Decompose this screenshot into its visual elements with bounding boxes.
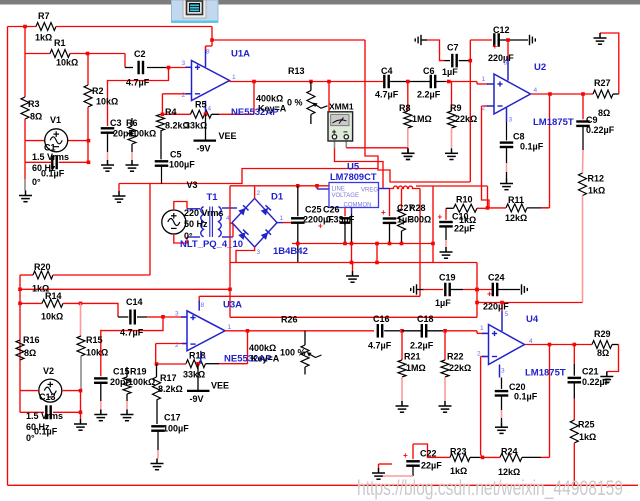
svg-text:300Ω: 300Ω — [409, 215, 431, 225]
svg-text:R26: R26 — [281, 315, 298, 325]
svg-text:C20: C20 — [509, 382, 526, 392]
svg-text:U3A: U3A — [223, 300, 242, 311]
svg-text:R9: R9 — [450, 103, 462, 113]
svg-text:12kΩ: 12kΩ — [498, 467, 520, 477]
svg-text:10kΩ: 10kΩ — [56, 58, 78, 68]
svg-text:4: 4 — [208, 106, 212, 113]
svg-text:100 %: 100 % — [280, 348, 306, 358]
svg-text:400kΩ: 400kΩ — [256, 94, 283, 104]
svg-text:2: 2 — [477, 351, 481, 358]
svg-text:R16: R16 — [23, 335, 40, 345]
svg-text:12kΩ: 12kΩ — [505, 213, 527, 223]
svg-text:R28: R28 — [409, 203, 426, 213]
svg-text:8Ω: 8Ω — [30, 112, 42, 122]
svg-text:T1: T1 — [207, 192, 219, 203]
svg-text:0.22µF: 0.22µF — [582, 377, 611, 387]
svg-text:+: + — [438, 213, 443, 222]
svg-text:R15: R15 — [86, 335, 103, 345]
svg-text:4.7µF: 4.7µF — [375, 90, 399, 100]
svg-text:4: 4 — [534, 87, 538, 94]
svg-text:R20: R20 — [34, 262, 51, 272]
svg-text:5: 5 — [504, 60, 508, 67]
svg-text:VREG: VREG — [361, 188, 378, 194]
svg-text:C6: C6 — [423, 66, 435, 76]
svg-text:-9V: -9V — [197, 144, 211, 154]
svg-text:33kΩ: 33kΩ — [185, 121, 207, 131]
svg-text:C14: C14 — [126, 297, 143, 307]
svg-text:C19: C19 — [439, 273, 456, 283]
svg-text:0.22µF: 0.22µF — [586, 125, 615, 135]
svg-text:33kΩ: 33kΩ — [183, 370, 205, 380]
svg-text:R17: R17 — [160, 373, 177, 383]
svg-text:10kΩ: 10kΩ — [96, 97, 118, 107]
svg-text:2: 2 — [482, 105, 486, 112]
svg-text:+: + — [403, 451, 408, 460]
svg-text:R1: R1 — [54, 38, 66, 48]
svg-text:Key=A: Key=A — [251, 354, 280, 364]
svg-text:R23: R23 — [450, 447, 467, 457]
svg-text:C17: C17 — [164, 413, 181, 423]
svg-text:+: + — [493, 42, 498, 51]
svg-text:C3: C3 — [110, 118, 122, 128]
svg-text:C8: C8 — [513, 132, 525, 142]
svg-text:8Ω: 8Ω — [24, 348, 36, 358]
svg-text:R6: R6 — [126, 118, 138, 128]
svg-text:400kΩ: 400kΩ — [249, 343, 276, 353]
svg-text:R8: R8 — [399, 103, 411, 113]
svg-text:C16: C16 — [373, 314, 390, 324]
svg-text:C22: C22 — [420, 449, 437, 459]
svg-text:1: 1 — [280, 215, 284, 222]
svg-text:4: 4 — [226, 215, 230, 222]
svg-text:1kΩ: 1kΩ — [588, 186, 605, 196]
svg-text:R5: R5 — [195, 100, 207, 110]
svg-text:R27: R27 — [594, 78, 611, 88]
svg-text:1µF: 1µF — [442, 67, 458, 77]
svg-text:C18: C18 — [417, 314, 434, 324]
svg-text:R21: R21 — [404, 352, 421, 362]
svg-text:4.7µF: 4.7µF — [120, 328, 144, 338]
svg-text:U1A: U1A — [231, 49, 250, 60]
svg-text:0.1µF: 0.1µF — [514, 392, 538, 402]
svg-text:22kΩ: 22kΩ — [449, 363, 471, 373]
svg-text:0.1µF: 0.1µF — [520, 142, 544, 152]
svg-text:1: 1 — [228, 324, 232, 331]
svg-text:R25: R25 — [578, 420, 595, 430]
svg-text:R7: R7 — [38, 11, 50, 21]
svg-text:V1: V1 — [50, 115, 61, 125]
svg-text:C12: C12 — [493, 25, 510, 35]
svg-text:C25: C25 — [305, 205, 322, 215]
svg-text:1: 1 — [480, 325, 484, 332]
svg-text:LM1875T: LM1875T — [525, 368, 566, 379]
svg-text:LM1875T: LM1875T — [533, 117, 574, 128]
svg-text:3: 3 — [501, 368, 505, 375]
svg-text:C7: C7 — [447, 43, 459, 53]
svg-text:1kΩ: 1kΩ — [35, 33, 52, 43]
svg-text:1MΩ: 1MΩ — [406, 363, 426, 373]
svg-text:C24: C24 — [488, 273, 505, 283]
svg-text:3: 3 — [257, 249, 261, 256]
svg-text:2.2µF: 2.2µF — [417, 90, 441, 100]
svg-text:C10: C10 — [452, 212, 469, 222]
svg-text:10kΩ: 10kΩ — [86, 348, 108, 358]
svg-text:2: 2 — [257, 190, 261, 197]
svg-text:0.33µF: 0.33µF — [326, 215, 355, 225]
svg-text:10kΩ: 10kΩ — [41, 312, 63, 322]
svg-text:V3: V3 — [187, 180, 198, 190]
svg-text:LINE: LINE — [332, 187, 345, 193]
svg-text:2.2µF: 2.2µF — [410, 341, 434, 351]
svg-text:220µF: 220µF — [483, 302, 509, 312]
svg-text:3: 3 — [509, 117, 513, 124]
svg-text:C4: C4 — [381, 66, 393, 76]
svg-text:8.2kΩ: 8.2kΩ — [158, 384, 183, 394]
svg-text:VOLTAGE: VOLTAGE — [332, 193, 359, 199]
svg-text:0 %: 0 % — [287, 98, 303, 108]
svg-text:1B4B42: 1B4B42 — [273, 246, 308, 257]
svg-text:R2: R2 — [92, 86, 104, 96]
svg-text:3: 3 — [175, 311, 179, 318]
svg-text:Key=A: Key=A — [258, 104, 287, 114]
svg-text:R22: R22 — [447, 352, 464, 362]
svg-text:U2: U2 — [534, 62, 546, 73]
svg-text:VEE: VEE — [211, 381, 229, 391]
svg-text:D1: D1 — [271, 192, 284, 203]
svg-text:50 Hz: 50 Hz — [184, 219, 208, 229]
svg-text:4.7µF: 4.7µF — [368, 341, 392, 351]
svg-text:100µF: 100µF — [163, 424, 189, 434]
svg-text:1.5 Vrms: 1.5 Vrms — [26, 411, 63, 421]
svg-text:U5: U5 — [347, 162, 360, 173]
svg-text:1kΩ: 1kΩ — [579, 432, 596, 442]
svg-text:C26: C26 — [323, 205, 340, 215]
svg-text:XMM1: XMM1 — [329, 102, 354, 112]
svg-text:2: 2 — [182, 92, 186, 99]
svg-text:R4: R4 — [165, 107, 177, 117]
svg-text:4: 4 — [529, 338, 533, 345]
svg-text:R24: R24 — [501, 447, 518, 457]
svg-text:4: 4 — [203, 355, 207, 362]
svg-text:LM7809CT: LM7809CT — [330, 172, 377, 183]
svg-text:COMMON: COMMON — [344, 203, 372, 209]
svg-text:22µF: 22µF — [454, 224, 475, 234]
svg-text:100kΩ: 100kΩ — [128, 377, 155, 387]
svg-text:3: 3 — [182, 60, 186, 67]
svg-text:R10: R10 — [456, 195, 473, 205]
svg-text:R14: R14 — [45, 291, 62, 301]
svg-text:8Ω: 8Ω — [597, 348, 609, 358]
svg-text:C9: C9 — [586, 115, 598, 125]
svg-text:C1: C1 — [44, 143, 56, 153]
svg-text:100µF: 100µF — [169, 160, 195, 170]
svg-text:C21: C21 — [582, 367, 599, 377]
svg-text:0°: 0° — [32, 177, 41, 187]
svg-text:8: 8 — [201, 302, 205, 309]
svg-text:+: + — [381, 208, 386, 217]
svg-text:0.1µF: 0.1µF — [34, 427, 58, 437]
svg-text:1kΩ: 1kΩ — [450, 466, 467, 476]
svg-text:C5: C5 — [170, 150, 182, 160]
svg-text:1.5 Vrms: 1.5 Vrms — [32, 152, 69, 162]
svg-text:22kΩ: 22kΩ — [455, 114, 477, 124]
svg-text:+: + — [487, 290, 492, 299]
svg-text:https://blog.csdn.net/weixin_4: https://blog.csdn.net/weixin_44908159 — [357, 477, 623, 500]
svg-text:8Ω: 8Ω — [598, 108, 610, 118]
svg-text:R19: R19 — [130, 367, 147, 377]
svg-text:R3: R3 — [28, 99, 40, 109]
svg-text:1: 1 — [232, 74, 236, 81]
svg-text:22µF: 22µF — [421, 461, 442, 471]
svg-text:1MΩ: 1MΩ — [412, 114, 432, 124]
svg-text:220µF: 220µF — [488, 53, 514, 63]
svg-text:C2: C2 — [134, 49, 146, 59]
svg-text:C15: C15 — [113, 367, 130, 377]
svg-text:R11: R11 — [508, 195, 524, 205]
svg-text:2: 2 — [175, 342, 179, 349]
svg-text:VEE: VEE — [219, 131, 237, 141]
svg-text:0.1µF: 0.1µF — [41, 169, 65, 179]
svg-text:1: 1 — [482, 76, 486, 83]
svg-text:U4: U4 — [526, 314, 539, 325]
svg-text:220 Vrms: 220 Vrms — [184, 208, 224, 218]
svg-text:V2: V2 — [43, 366, 54, 376]
svg-text:NLT_PQ_4_10: NLT_PQ_4_10 — [180, 239, 243, 250]
svg-text:0°: 0° — [26, 433, 35, 443]
svg-text:C13: C13 — [39, 392, 56, 402]
svg-text:100kΩ: 100kΩ — [129, 129, 156, 139]
svg-text:R29: R29 — [594, 329, 611, 339]
svg-text:5: 5 — [505, 311, 509, 318]
svg-text:8: 8 — [206, 49, 210, 56]
svg-text:1µF: 1µF — [435, 298, 451, 308]
svg-text:-9V: -9V — [190, 394, 204, 404]
svg-text:R12: R12 — [588, 174, 605, 184]
svg-text:4.7µF: 4.7µF — [126, 78, 150, 88]
svg-text:R13: R13 — [288, 66, 305, 76]
